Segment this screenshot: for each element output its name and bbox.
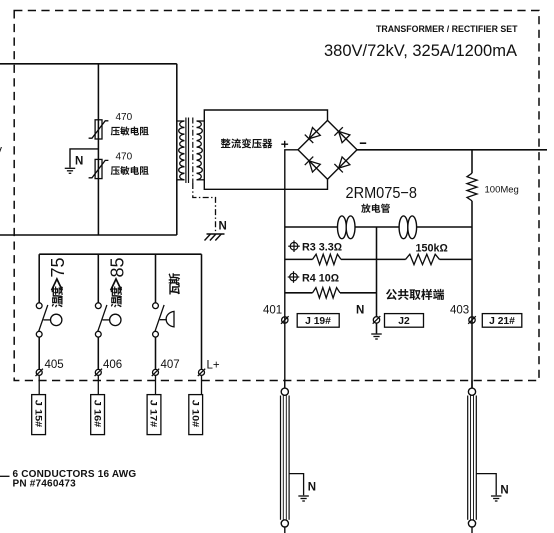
cable cable W+ (401) shielded body — [281, 396, 290, 520]
resistor R3 3.3Ω — [313, 254, 342, 264]
svg-text:407: 407 — [161, 359, 180, 371]
svg-text:L+: L+ — [207, 360, 220, 372]
wire: L+ column — [201, 254, 203, 369]
transformer T1 core — [186, 118, 189, 184]
cable cable W− (403) top connector — [468, 388, 475, 395]
wire: cable W+ (401) below cable — [284, 527, 286, 533]
switch bus wire — [39, 253, 201, 255]
wire: cable W+ (401) into cable — [284, 381, 286, 389]
wire: varistor branch — [97, 64, 99, 235]
chassis ground N (transformer core) — [205, 234, 225, 241]
svg-text:J 15#: J 15# — [32, 400, 43, 428]
svg-text:R3 3.3Ω: R3 3.3Ω — [302, 242, 342, 254]
cable cable W+ (401) bottom connector — [281, 520, 288, 527]
datum mark (R3) — [288, 240, 300, 252]
wire: switch column S3 lower — [155, 337, 157, 369]
switch contact circles (S3) — [153, 303, 159, 309]
svg-text:N: N — [308, 482, 316, 494]
wire to connector tag J 15# — [38, 376, 40, 395]
wire: switch column S2 lower — [97, 337, 99, 369]
wire: + output down bus — [285, 150, 298, 388]
label 温度>75 (rotated) — [52, 286, 63, 307]
label + (positive output) — [281, 141, 288, 148]
diode D2 (upper-right) — [334, 127, 350, 143]
AC input box right edge / transformer primary bus — [176, 64, 178, 235]
earth ground N (cable W+ (401) shield) — [298, 496, 309, 501]
resistor R4 10Ω — [313, 288, 341, 298]
wire to connector tag J 10# — [201, 376, 203, 395]
terminal screw 403 — [468, 316, 476, 324]
svg-text:N: N — [356, 305, 364, 317]
terminal screw L+ — [198, 369, 205, 376]
rectifier box 整流变压器 — [204, 110, 327, 189]
bridge rectifier diamond wires — [298, 120, 357, 179]
ground (varistor midpoint, neutral) — [65, 168, 76, 173]
cable cable W+ (401) top connector — [281, 388, 288, 395]
transformer core dash-dot line — [192, 118, 194, 184]
terminal screw 405 — [36, 369, 43, 376]
discharge tube GT1 — [338, 216, 356, 239]
label 公共取样端 — [386, 289, 444, 300]
transformer T1 secondary winding — [197, 121, 205, 180]
terminal screw 401 — [281, 316, 289, 324]
dashed enclosure border (transformer/rectifier set boundary) — [14, 11, 539, 381]
resistor 150kΩ — [406, 254, 440, 264]
resistor 100Meg — [467, 173, 477, 201]
AC input box bottom wire — [0, 234, 177, 236]
svg-text:100Meg: 100Meg — [485, 185, 519, 196]
wire: common sampling vertical (N) — [376, 227, 378, 317]
diode D4 (lower-right) — [334, 157, 350, 173]
label 压敏电阻 (RV1) — [111, 126, 149, 135]
wire: switch column S1 lower — [38, 337, 40, 369]
wire: R3/150k row — [285, 258, 313, 260]
switch blade (S2) — [98, 305, 107, 332]
label − (negative output) — [360, 142, 366, 144]
terminal screw 407 — [152, 369, 159, 376]
wire: right bus below 100Meg — [471, 201, 473, 388]
connector tag J 16# — [91, 395, 105, 435]
wire to connector tag J 16# — [97, 376, 99, 395]
earth ground N (cable W− (403) shield) — [491, 496, 502, 501]
wire: switch column S3 upper — [155, 254, 157, 303]
svg-text:J 10#: J 10# — [189, 400, 200, 428]
svg-text:J 17#: J 17# — [148, 400, 159, 428]
wire: N screw to earth — [376, 323, 378, 333]
wire: R4 row — [285, 292, 313, 294]
wire: − output bus to right — [357, 149, 547, 151]
svg-text:403: 403 — [450, 305, 469, 317]
varistor RV1 470 — [89, 120, 109, 139]
wire: cable W− (403) shield to ground — [476, 474, 496, 496]
discharge tube GT2 — [399, 216, 417, 239]
svg-text:J 21#: J 21# — [489, 316, 515, 327]
svg-text:R4 10Ω: R4 10Ω — [302, 273, 339, 285]
connector box J2 — [385, 314, 424, 328]
svg-text:470: 470 — [116, 112, 133, 123]
terminal screw 406 — [95, 369, 102, 376]
label 温度>85 (rotated) — [111, 286, 122, 307]
svg-text:J 16#: J 16# — [91, 400, 102, 428]
svg-text:406: 406 — [103, 359, 122, 371]
switch blade (S3) — [155, 305, 164, 332]
wire: switch column S2 upper — [97, 254, 99, 303]
terminal screw N — [373, 316, 381, 324]
earth ground (N sampling) — [371, 334, 382, 339]
svg-text:405: 405 — [45, 359, 64, 371]
svg-text:150kΩ: 150kΩ — [416, 243, 448, 255]
wire: switch column S1 upper — [38, 254, 40, 303]
svg-text:85: 85 — [107, 257, 127, 277]
diode D1 (upper-left) — [305, 127, 321, 143]
svg-text:v: v — [0, 143, 2, 157]
svg-text:2RM075−8: 2RM075−8 — [346, 185, 418, 202]
varistor RV2 470 — [89, 159, 109, 178]
wire: cable W− (403) below cable — [471, 527, 473, 533]
wire: varistor midpoint to ground — [70, 149, 98, 168]
svg-text:75: 75 — [48, 257, 68, 277]
svg-text:TRANSFORMER / RECTIFIER SET: TRANSFORMER / RECTIFIER SET — [376, 24, 518, 35]
connector tag J 15# — [32, 395, 46, 435]
connector box J 21# — [482, 314, 522, 328]
svg-text:J2: J2 — [398, 316, 410, 327]
core ground dash-dot wire — [193, 183, 216, 234]
switch blade (S1) — [39, 305, 48, 332]
switch actuator circle (S2) — [103, 319, 110, 321]
svg-text:J 19#: J 19# — [305, 316, 331, 327]
svg-text:401: 401 — [263, 305, 282, 317]
cable cable W− (403) bottom connector — [468, 520, 475, 527]
wire to connector tag J 17# — [155, 376, 157, 395]
leader line (note) — [0, 475, 10, 477]
connector tag J 10# — [189, 395, 203, 435]
wire: right vertical bus (403) — [471, 150, 473, 173]
connector tag J 17# — [147, 395, 161, 435]
label 压敏电阻 (RV2) — [111, 166, 149, 175]
switch actuator circle (S1) — [43, 319, 50, 321]
label 放电管 — [361, 204, 390, 213]
svg-text:N: N — [219, 221, 227, 233]
svg-text:N: N — [75, 156, 83, 168]
diode D3 (lower-left) — [305, 157, 321, 173]
AC input box top wire — [0, 63, 177, 65]
switch actuator horn (S3) — [160, 319, 167, 321]
wire: cable W− (403) into cable — [471, 381, 473, 389]
label 瓦斯 (rotated) — [169, 273, 181, 294]
datum mark (R4) — [288, 271, 300, 283]
svg-text:380V/72kV, 325A/1200mA: 380V/72kV, 325A/1200mA — [324, 42, 517, 60]
switch contact circles (S1) — [36, 303, 42, 309]
cable cable W− (403) shielded body — [468, 396, 477, 520]
transformer T1 primary winding — [177, 121, 185, 180]
svg-text:470: 470 — [116, 152, 133, 163]
connector box J 19# — [297, 314, 339, 328]
svg-text:N: N — [500, 485, 508, 497]
svg-text:PN #7460473: PN #7460473 — [13, 479, 77, 490]
wire: discharge tube row — [285, 226, 472, 228]
label 整流变压器 — [221, 138, 273, 148]
switch contact circles (S2) — [95, 303, 101, 309]
wire: cable W+ (401) shield to ground — [289, 474, 304, 496]
